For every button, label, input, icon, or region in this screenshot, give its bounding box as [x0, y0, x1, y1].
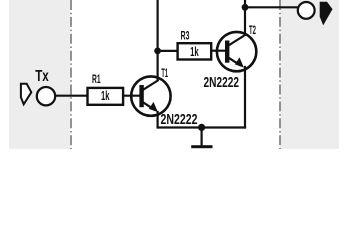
output terminal circle — [298, 2, 315, 19]
svg-text:T1: T1 — [161, 66, 168, 80]
svg-text:1k: 1k — [190, 44, 199, 59]
transistor T1 emitter diagonal with arrow — [143, 102, 155, 110]
left shaded margin (outside module boundary) — [9, 0, 70, 149]
transistor T1 collector diagonal — [143, 80, 159, 90]
node junction dot at T2 collector — [242, 4, 249, 11]
wire R1 to T1 base — [123, 95, 140, 97]
input signal arrow — [21, 84, 31, 105]
wire T2 emitter riser — [244, 66, 246, 129]
svg-text:R3: R3 — [181, 30, 190, 42]
wire R3 to T2 base — [210, 50, 226, 52]
right shaded margin (outside module boundary) — [281, 0, 340, 149]
svg-text:T2: T2 — [249, 23, 256, 37]
svg-text:2N2222: 2N2222 — [161, 111, 198, 128]
output signal arrow (solid) — [320, 2, 333, 26]
node junction dot feeding R3 — [154, 48, 161, 55]
transistor T2 emitter diagonal with arrow — [229, 58, 241, 66]
wire node to output circle — [245, 6, 298, 8]
resistor R1 — [88, 88, 124, 105]
transistor T2 body circle — [217, 32, 256, 71]
svg-text:Tx: Tx — [35, 68, 49, 85]
transistor T1 base bar — [139, 85, 143, 107]
wire T1 emitter riser — [157, 111, 159, 129]
wire T2 collector riser — [244, 0, 246, 36]
resistor R3 — [178, 43, 212, 59]
input terminal circle — [37, 87, 55, 105]
node junction dot at ground — [198, 124, 205, 131]
transistor T2 base bar — [225, 41, 229, 63]
ground stub wire — [201, 127, 203, 145]
svg-text:1k: 1k — [101, 88, 110, 103]
svg-text:R1: R1 — [92, 74, 101, 86]
boundary dash-dot line right — [279, 0, 281, 149]
wire input circle to R1 — [56, 95, 87, 97]
wire node to R3 — [158, 50, 178, 52]
svg-text:2N2222: 2N2222 — [204, 74, 240, 91]
transistor T1 body circle — [131, 76, 170, 115]
boundary dash-dot line left — [70, 0, 72, 149]
bottom emitter wire — [158, 126, 247, 128]
transistor T2 collector diagonal — [229, 36, 245, 46]
wire T1 collector riser — [157, 0, 159, 81]
ground symbol bar — [191, 145, 212, 148]
